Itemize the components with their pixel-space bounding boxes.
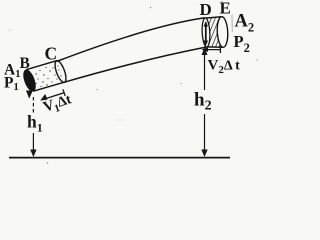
cylinder D-E top edge	[205, 17, 221, 18]
dark fluid disc at B	[21, 69, 37, 93]
faint scan artifact line near A2	[231, 15, 233, 33]
cross-section ellipse at D	[201, 18, 210, 47]
v2dt measure arrow	[201, 46, 220, 53]
svg-text:E: E	[220, 0, 231, 18]
svg-text:C: C	[45, 44, 58, 64]
svg-text:B: B	[20, 55, 30, 72]
scan specks	[10, 1, 258, 164]
h2 dimension line	[201, 48, 207, 158]
stipple dots in left fluid element	[32, 65, 62, 87]
dark tip below disc B	[26, 91, 33, 99]
right cylinder hatching	[206, 18, 223, 48]
label v1 dt (rotated)	[41, 92, 74, 118]
svg-text:D: D	[200, 0, 212, 19]
cylinder D-E bottom edge	[207, 46, 224, 48]
wire lower tube outline curve C to D	[64, 47, 207, 82]
h1 dimension line	[30, 97, 36, 157]
cross-section ellipse at C	[53, 59, 68, 83]
left cylinder bottom edge B to C	[33, 82, 64, 91]
wire upper tube outline curve C to D	[57, 18, 206, 62]
ground line	[9, 157, 230, 159]
left cylinder top edge B to C	[26, 61, 57, 70]
v1dt measure arrow	[40, 89, 65, 100]
svg-text:V2Δt: V2Δt	[208, 58, 241, 77]
cross-section ellipse at E	[217, 16, 229, 47]
dark double arrow inside D	[204, 21, 208, 46]
